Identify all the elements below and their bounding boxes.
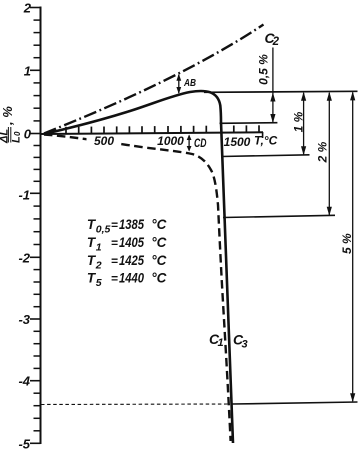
svg-text:T,°C: T,°C bbox=[254, 134, 278, 148]
svg-text:ΔL: ΔL bbox=[0, 129, 11, 144]
svg-text:2: 2 bbox=[23, 1, 32, 16]
x-axis bbox=[41, 132, 264, 134]
svg-text:=: = bbox=[111, 218, 118, 232]
1% level line bbox=[222, 155, 310, 157]
dashed curve C1 bbox=[44, 135, 231, 442]
arrow AB bbox=[176, 74, 181, 94]
dimension arrow 0.5% bbox=[270, 48, 275, 124]
0.5% level line bbox=[220, 122, 278, 125]
x-axis ticks bbox=[66, 125, 259, 134]
svg-text:°C: °C bbox=[151, 235, 166, 250]
dimension arrow 1% bbox=[301, 92, 306, 156]
svg-text:0,5 %: 0,5 % bbox=[257, 54, 271, 85]
svg-text:0: 0 bbox=[24, 127, 32, 142]
svg-text:1405: 1405 bbox=[119, 235, 144, 250]
5% bottom line solid part bbox=[233, 402, 358, 404]
svg-text:0: 0 bbox=[13, 131, 22, 136]
svg-text:5: 5 bbox=[96, 277, 102, 289]
solid curve bbox=[44, 91, 233, 443]
y-axis bbox=[40, 7, 42, 445]
x-axis end tick bbox=[262, 132, 264, 138]
svg-text:CD: CD bbox=[194, 138, 207, 150]
y-axis title rotated: ΔL/L0, % bbox=[0, 106, 23, 144]
svg-text:1: 1 bbox=[96, 242, 102, 254]
y-axis major ticks bbox=[30, 8, 41, 444]
y-axis minor ticks bbox=[34, 20, 41, 431]
svg-text:°C: °C bbox=[151, 270, 166, 285]
y axis number labels bbox=[18, 1, 31, 450]
svg-text:°C: °C bbox=[151, 253, 166, 268]
arrow CD bbox=[187, 135, 192, 152]
top reference line bbox=[204, 91, 358, 92]
svg-text:500: 500 bbox=[94, 134, 114, 148]
5% bottom line dashed part bbox=[41, 403, 229, 406]
dimension arrow 5% bbox=[350, 91, 355, 402]
2% level line bbox=[223, 215, 335, 217]
svg-text:=: = bbox=[111, 236, 118, 250]
svg-text:=: = bbox=[111, 271, 118, 285]
svg-text:2: 2 bbox=[272, 36, 280, 48]
svg-text:L: L bbox=[11, 136, 23, 143]
svg-text:1 %: 1 % bbox=[292, 111, 306, 132]
svg-text:-1: -1 bbox=[18, 188, 30, 203]
svg-text:, %: , % bbox=[0, 106, 15, 126]
svg-text:2: 2 bbox=[95, 259, 102, 271]
svg-text:=: = bbox=[111, 254, 118, 268]
dimension arrow 2% bbox=[327, 92, 332, 216]
svg-text:1500: 1500 bbox=[224, 135, 251, 149]
svg-text:1: 1 bbox=[24, 63, 31, 78]
svg-text:AB: AB bbox=[183, 77, 196, 89]
svg-text:1440: 1440 bbox=[119, 270, 144, 285]
x axis labels bbox=[94, 134, 278, 149]
svg-text:1000: 1000 bbox=[157, 134, 184, 148]
svg-text:-4: -4 bbox=[18, 374, 30, 389]
svg-text:-2: -2 bbox=[18, 250, 30, 265]
svg-text:5 %: 5 % bbox=[340, 233, 354, 254]
svg-text:0,5: 0,5 bbox=[96, 224, 111, 236]
svg-text:-5: -5 bbox=[18, 436, 30, 450]
dash-dot curve C2 bbox=[44, 25, 264, 134]
svg-text:-3: -3 bbox=[18, 312, 30, 327]
svg-text:°C: °C bbox=[151, 217, 166, 232]
svg-text:3: 3 bbox=[242, 339, 248, 351]
svg-text:1: 1 bbox=[218, 337, 224, 349]
svg-text:1385: 1385 bbox=[119, 217, 144, 232]
svg-text:1425: 1425 bbox=[119, 253, 144, 268]
svg-text:2 %: 2 % bbox=[316, 141, 330, 163]
